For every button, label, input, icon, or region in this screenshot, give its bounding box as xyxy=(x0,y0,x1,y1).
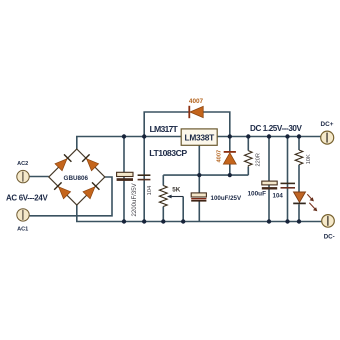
svg-text:DC-: DC- xyxy=(324,233,335,240)
junction C4 bottom xyxy=(267,219,271,223)
junction C2/D1 top xyxy=(142,134,146,138)
bridge diode bottom-right xyxy=(83,182,99,198)
junction pot bottom xyxy=(161,219,165,223)
capacitor C1 2200uF/35V xyxy=(117,172,133,181)
capacitor C2 104 xyxy=(138,175,151,179)
wire vertical C2 branch xyxy=(143,137,145,222)
wire top rail from bridge top corner to DC+ xyxy=(77,137,321,150)
bridge diode top-left xyxy=(55,154,71,170)
wire regulator ADJ lead down xyxy=(198,145,200,222)
svg-text:GBU806: GBU806 xyxy=(64,175,89,182)
junction ADJ node A xyxy=(197,173,201,177)
junction R2 top xyxy=(297,134,301,138)
svg-text:LT1083CP: LT1083CP xyxy=(149,148,187,158)
svg-text:2200uF/35V: 2200uF/35V xyxy=(131,182,138,216)
wire AC2 to bridge left corner xyxy=(29,176,49,178)
wire pot wiper to ground xyxy=(182,197,184,222)
diode D1 4007 (top bypass) xyxy=(189,106,203,118)
terminal DC+ xyxy=(321,131,334,144)
svg-text:220R: 220R xyxy=(255,153,261,166)
wire pot bottom lead xyxy=(162,207,164,222)
svg-text:LM317T: LM317T xyxy=(150,124,179,134)
svg-text:100uF/25V: 100uF/25V xyxy=(211,195,242,202)
wire R2 and LED branch xyxy=(298,137,300,222)
wire C5 104 branch xyxy=(287,137,289,222)
wire AC1 to bridge right corner xyxy=(29,177,112,216)
svg-text:4007: 4007 xyxy=(189,98,204,105)
junction R1 top xyxy=(246,134,250,138)
capacitor C4 100uF xyxy=(262,181,277,189)
bridge rectifier GBU806 diamond edges xyxy=(49,149,105,205)
wire ADJ horizontal line xyxy=(163,174,248,176)
capacitor C3 100uF/25V xyxy=(191,193,206,202)
svg-text:AC 6V---24V: AC 6V---24V xyxy=(6,193,48,202)
wire bottom DC- rail from bridge bottom corner to DC- xyxy=(77,205,322,222)
wire bypass diode loop xyxy=(144,112,230,137)
regulator U1 LM338T box xyxy=(181,129,217,145)
LED D6 xyxy=(293,192,317,211)
svg-text:AC2: AC2 xyxy=(17,161,28,167)
wire D5 vertical leads xyxy=(229,137,231,176)
junction D5 top xyxy=(228,134,232,138)
terminal AC2 xyxy=(17,170,29,182)
svg-text:104: 104 xyxy=(147,185,153,196)
svg-text:AC1: AC1 xyxy=(17,226,28,232)
terminal DC- xyxy=(322,215,335,228)
junction ADJ node B xyxy=(228,173,232,177)
diode D5 4007 (vertical, rail to ADJ) xyxy=(223,152,236,164)
bridge diode bottom-left xyxy=(54,182,70,198)
svg-text:10K: 10K xyxy=(306,154,312,164)
wire C4 100uF branch xyxy=(268,137,270,222)
junction C4 top xyxy=(267,134,271,138)
junction C2 bottom xyxy=(142,219,146,223)
svg-text:DC 1.25V---30V: DC 1.25V---30V xyxy=(250,124,303,133)
svg-text:100uF: 100uF xyxy=(248,191,267,198)
svg-text:LM338T: LM338T xyxy=(185,133,216,143)
potentiometer RP 5K xyxy=(159,186,183,207)
svg-text:104: 104 xyxy=(273,192,284,199)
wire R1 220R leads xyxy=(247,137,249,176)
svg-text:DC+: DC+ xyxy=(321,121,334,128)
bridge diode top-right xyxy=(82,154,98,170)
svg-text:5K: 5K xyxy=(172,187,181,194)
junction C5 bottom xyxy=(285,219,289,223)
capacitor C5 104 xyxy=(281,183,296,187)
resistor R1 220R xyxy=(245,151,253,167)
terminal AC1 xyxy=(17,209,29,221)
junction C5 top xyxy=(285,134,289,138)
junction wiper bottom xyxy=(181,219,185,223)
resistor R2 10K xyxy=(295,150,303,165)
wire pot top lead xyxy=(162,175,164,185)
svg-text:4007: 4007 xyxy=(216,150,222,163)
wire vertical C1 branch xyxy=(123,137,125,222)
junction C1 top xyxy=(122,134,126,138)
junction LED bottom xyxy=(297,219,301,223)
junction C1 bottom xyxy=(122,219,126,223)
